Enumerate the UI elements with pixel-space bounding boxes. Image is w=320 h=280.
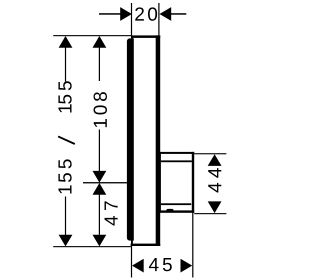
dimension 20 : right arrow — [160, 7, 172, 21]
dimension 45 : label — [149, 258, 172, 271]
dimension 108 : up arrow — [93, 36, 107, 48]
extension line: bottom baseline (for 155/47 dims) — [53, 246, 131, 247]
dimension 45 : left arrow — [132, 259, 144, 273]
dimension 20 : left tail — [99, 13, 121, 15]
dimension 108 : label — [94, 92, 107, 127]
centerline tick of valve body — [83, 182, 130, 183]
dimension 45 : left extension line — [131, 246, 132, 278]
valve box: white interior fill — [161, 154, 192, 212]
dimension 20 : label — [135, 7, 157, 20]
dimension 155/155 : label — [58, 81, 71, 193]
valve box: inner top flange line — [161, 160, 192, 162]
dimension 20 : left arrow — [120, 7, 132, 21]
dimension 155/155 : dimension line lower segment — [65, 197, 66, 236]
dimension 44 : label — [208, 168, 221, 192]
plate: back (right) edge thick band — [156, 35, 161, 246]
dimension 155/155 : label slash — [58, 136, 75, 144]
valve box: bump on bottom edge — [166, 209, 173, 212]
dimension 20 : right extension line — [158, 3, 159, 35]
dimension 45 : right extension line — [192, 213, 193, 278]
valve box: right edge — [192, 152, 194, 213]
dimension 45 : right arrow — [181, 259, 193, 273]
dimension 20 : left extension line — [131, 3, 132, 35]
plate: top edge — [131, 35, 160, 38]
valve box: top edge — [158, 152, 194, 154]
plate: bottom edge — [131, 244, 161, 246]
dimension 44 : top extension line — [194, 153, 226, 154]
dimension 47 : label — [105, 201, 118, 225]
valve box: bottom edge — [158, 210, 194, 212]
dimension 108 : dimension line upper segment — [99, 47, 100, 81]
valve box: left edge (against plate) — [158, 152, 161, 213]
plate: front face bar (rounded) — [127, 38, 134, 240]
dimension 108 : dimension line lower segment — [99, 130, 100, 172]
dimension 108 : down arrow at centerline — [93, 171, 107, 183]
dimension 155/155 : down arrow — [59, 235, 73, 247]
dimension 20 : right tail — [171, 13, 186, 15]
dimension 155/155 : dimension line upper segment — [65, 47, 66, 82]
dimension 47 : down arrow — [93, 235, 107, 247]
extension line: top surface of plate (for 155/108 dims) — [53, 35, 132, 36]
dimension 155/155 : up arrow — [59, 36, 73, 48]
plate: left outline edge — [131, 35, 133, 246]
dimension 44 : down arrow — [208, 201, 222, 213]
dimension 47 : up arrow at centerline — [93, 183, 107, 195]
valve box: inner bottom flange line — [161, 203, 191, 205]
dimension 47 : dimension line — [99, 195, 100, 235]
dimension 44 : up arrow — [208, 154, 222, 166]
dimension 44 : bottom extension line — [194, 213, 226, 214]
